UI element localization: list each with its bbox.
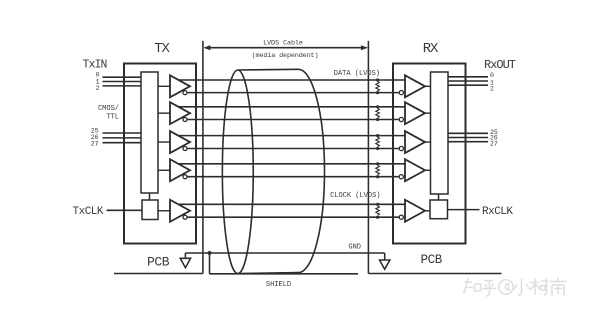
- wire TxCLK input: [107, 209, 143, 211]
- TX driver A3: [158, 131, 190, 153]
- TX driver A1: [158, 75, 190, 97]
- svg-text:DATA (LVDS): DATA (LVDS): [334, 70, 380, 78]
- cable bottom line: [238, 273, 299, 274]
- wire pair 1 minus: [187, 92, 399, 94]
- svg-text:TX: TX: [154, 41, 170, 57]
- svg-text:RX: RX: [423, 41, 439, 57]
- svg-text:GND: GND: [348, 244, 361, 252]
- wire RxOUT 26: [448, 137, 488, 139]
- right PCB ground plane wire: [368, 273, 501, 275]
- RX block U2: [393, 64, 466, 244]
- ground symbol TX: [180, 253, 190, 268]
- wire RxOUT 25: [448, 132, 488, 134]
- RX receiver B3: [399, 131, 430, 153]
- svg-text:CLOCK (LVDS): CLOCK (LVDS): [330, 192, 380, 200]
- RX receiver B1: [399, 75, 430, 97]
- RX clock receiver B5: [399, 200, 430, 222]
- wire TxIN 27: [103, 142, 142, 144]
- wire pair 2 minus: [187, 119, 399, 121]
- wire TxIN 2: [103, 85, 142, 87]
- left PCB ground plane wire: [114, 273, 203, 275]
- RX receiver B2: [399, 102, 430, 124]
- svg-text:CMOS/: CMOS/: [98, 105, 119, 113]
- wire register to RX clock box: [438, 194, 440, 200]
- wire TxIN 0: [103, 76, 142, 78]
- TX driver A4: [158, 159, 190, 181]
- ground symbol RX: [380, 253, 390, 269]
- termination resistor R4: [376, 162, 380, 178]
- termination resistor R3: [376, 134, 380, 150]
- svg-text:TTL: TTL: [106, 114, 119, 122]
- svg-text:RxCLK: RxCLK: [482, 206, 513, 218]
- wire pair 1 plus: [179, 79, 405, 81]
- wire TxIN 25: [103, 132, 142, 134]
- wire RxOUT 0: [448, 76, 488, 78]
- wire RxOUT 27: [448, 141, 488, 143]
- svg-text:27: 27: [490, 141, 498, 148]
- wire GND: [185, 252, 384, 254]
- wire TxIN 26: [103, 137, 142, 139]
- wire clock pair plus: [179, 203, 405, 205]
- cable top line: [238, 68, 299, 71]
- wire pair 2 plus: [179, 106, 405, 108]
- termination resistor R5: [376, 203, 380, 219]
- RX receiver B4: [399, 159, 430, 181]
- svg-text:2: 2: [490, 86, 494, 93]
- wire pair 3 plus: [179, 135, 405, 137]
- cable boundary right: [367, 41, 369, 274]
- wire shield drop: [209, 253, 211, 274]
- svg-text:SHIELD: SHIELD: [266, 281, 291, 289]
- junction shield to GND: [208, 251, 212, 255]
- svg-text:27: 27: [91, 141, 99, 148]
- svg-text:TxIN: TxIN: [83, 59, 107, 72]
- TX driver A2: [158, 102, 190, 124]
- cable boundary left: [202, 41, 204, 274]
- wire RxCLK output: [448, 209, 480, 211]
- wire RxOUT 1: [448, 80, 488, 82]
- cable right arc: [299, 69, 325, 272]
- svg-text:PCB: PCB: [421, 253, 443, 267]
- wire pair 3 minus: [187, 148, 399, 150]
- wire RxOUT 2: [448, 84, 488, 86]
- wire shield: [210, 273, 359, 275]
- TX input register: [141, 72, 158, 193]
- watermark zhihu: [464, 278, 567, 297]
- RX clock box: [430, 200, 448, 219]
- TX clock driver A5: [158, 200, 190, 222]
- wire pair 4 plus: [179, 163, 405, 165]
- dimension arrow LVDS cable: [203, 45, 368, 50]
- svg-text:2: 2: [96, 85, 100, 92]
- svg-text:PCB: PCB: [147, 255, 170, 270]
- wire register to clock box: [149, 193, 151, 200]
- cable left ellipse: [222, 70, 253, 274]
- svg-text:0: 0: [490, 72, 494, 79]
- svg-text:RxOUT: RxOUT: [484, 58, 516, 72]
- RX output register: [431, 72, 449, 194]
- termination resistor R1: [376, 78, 380, 94]
- TX block U1: [124, 64, 196, 244]
- termination resistor R2: [376, 105, 380, 121]
- wire pair 4 minus: [187, 176, 399, 178]
- svg-text:TxCLK: TxCLK: [73, 206, 104, 218]
- wire TxIN 1: [103, 81, 142, 83]
- svg-text:LVDS Cable: LVDS Cable: [263, 39, 303, 47]
- TX clock box: [142, 200, 158, 220]
- svg-text:(media dependent): (media dependent): [252, 52, 319, 60]
- wire clock pair minus: [187, 216, 399, 218]
